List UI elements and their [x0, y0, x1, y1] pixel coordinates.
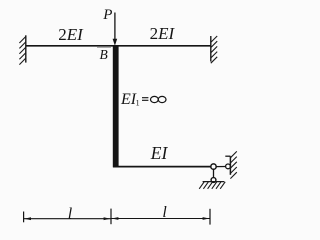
dimension left tick — [23, 212, 25, 223]
load P arrow — [113, 13, 118, 46]
left fixed support wall — [19, 35, 25, 64]
ground anchor with hatching — [199, 182, 225, 189]
right wall anchor with hatching — [225, 151, 237, 178]
right fixed support wall — [211, 36, 217, 63]
dimension middle tick — [110, 209, 112, 225]
rigid column EI1 = infinity — [113, 46, 119, 167]
horizontal link to wall — [216, 166, 226, 168]
svg-text:l: l — [162, 204, 167, 221]
hinge circle at wall — [226, 164, 231, 169]
svg-text:B: B — [100, 47, 108, 62]
svg-text:l: l — [68, 205, 73, 222]
hinge circle at member end — [211, 164, 216, 169]
vertical link to ground — [213, 169, 215, 177]
svg-text:2EI: 2EI — [150, 24, 176, 43]
svg-text:2EI: 2EI — [58, 25, 84, 44]
svg-text:P: P — [102, 7, 112, 23]
dimension right tick — [209, 209, 211, 225]
svg-text:1: 1 — [136, 99, 140, 108]
scan smear on beam left of node B — [97, 46, 111, 48]
dimension line left span — [24, 217, 111, 220]
bottom beam member — [113, 166, 211, 168]
svg-text:EI: EI — [120, 91, 137, 108]
dimension line right span — [111, 217, 210, 220]
label EI1 = infinity — [120, 91, 166, 108]
hinge circle at ground — [211, 178, 216, 183]
top beam member — [26, 45, 211, 47]
svg-text:EI: EI — [150, 143, 169, 163]
